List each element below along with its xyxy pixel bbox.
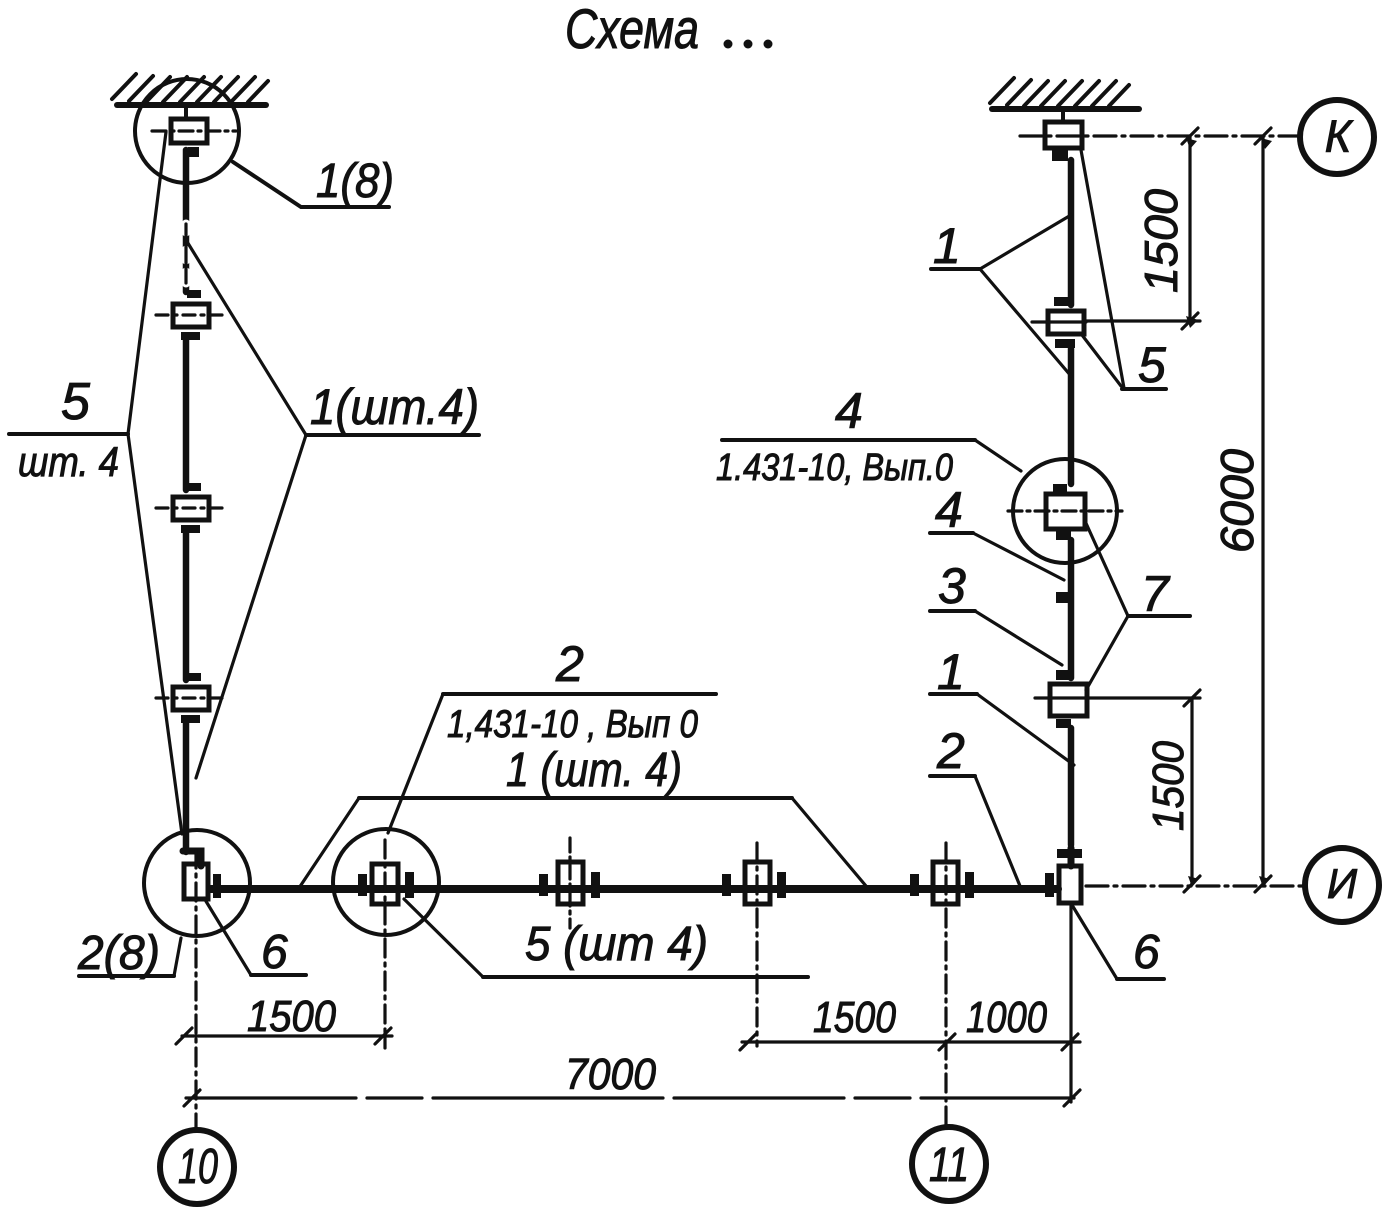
circle around clamp 1 <box>135 79 239 183</box>
clamp 4 left <box>156 673 228 723</box>
node I circle <box>1305 848 1379 922</box>
svg-text:1.431-10, Вып.0: 1.431-10, Вып.0 <box>716 447 953 489</box>
joint tick pointed by label 4 <box>1056 592 1071 603</box>
construction line clamp8 down <box>755 843 758 1046</box>
node K circle <box>1300 100 1374 174</box>
clamp 3 left <box>156 483 228 533</box>
clamp 7 bottom middle <box>539 838 600 928</box>
svg-text:К: К <box>1325 111 1354 162</box>
svg-text:1500: 1500 <box>1135 189 1187 293</box>
svg-text:Схема: Схема <box>565 0 699 60</box>
label 1(шт.4) left <box>186 240 479 778</box>
svg-text:1500: 1500 <box>1144 741 1193 831</box>
svg-text:4: 4 <box>935 482 963 538</box>
svg-text:6: 6 <box>261 926 288 979</box>
label 4 small right <box>930 482 1064 580</box>
ceiling hatch right <box>990 78 1139 109</box>
svg-text:1500: 1500 <box>247 992 336 1041</box>
construction line clamp5 to node 10 <box>194 850 197 1129</box>
svg-text:6000: 6000 <box>1211 449 1263 553</box>
ceiling hatch left <box>112 74 268 105</box>
svg-text:7000: 7000 <box>565 1050 656 1099</box>
svg-text:6: 6 <box>1133 926 1160 979</box>
joint tick pointed by label 3 <box>1056 670 1073 680</box>
label 6 right <box>1072 905 1164 979</box>
dimension 1500 top right <box>1086 128 1200 329</box>
wire bottom horizontal conductor <box>211 885 1058 893</box>
label 4 with 1.431-10 Вып.0 <box>716 383 1021 489</box>
node 11 circle <box>912 1127 986 1201</box>
svg-text:1 (шт. 4): 1 (шт. 4) <box>506 744 682 797</box>
clamp 2 left <box>156 290 228 340</box>
wire left corner jog <box>183 851 201 866</box>
clamp 11 top-right <box>1045 112 1082 161</box>
construction line corner down <box>1069 905 1072 1102</box>
label 5 шт.4 left <box>9 132 182 834</box>
label 2 right <box>930 723 1020 886</box>
circle around clamp 6 <box>333 829 439 935</box>
svg-text:5: 5 <box>61 373 91 431</box>
svg-text:1: 1 <box>937 644 965 700</box>
wire right corner jog <box>1068 848 1075 866</box>
clamp 14 right <box>1035 684 1089 728</box>
construction line clamp9 to node 11 <box>944 843 947 1126</box>
dimension 1500 bottom right <box>1089 690 1200 892</box>
circle around clamp 5 <box>144 830 250 936</box>
clamp 13 right circled <box>1008 484 1122 540</box>
junction marks on axis lines <box>1186 138 1272 887</box>
dimension 1500/1000 bottom right <box>740 1034 1080 1050</box>
node 10 circle <box>160 1130 234 1204</box>
label 1 top right <box>931 215 1071 376</box>
dash-dot axis line to I <box>1086 884 1307 887</box>
clamp 6 bottom circled <box>358 864 414 904</box>
svg-text:1(8): 1(8) <box>316 155 394 208</box>
dash-dot axis line to K <box>1020 134 1302 137</box>
circle around clamp 13 <box>1013 459 1117 563</box>
dimension 1500 bottom left <box>176 1028 392 1044</box>
svg-text:11: 11 <box>929 1139 969 1192</box>
wire left vertical conductor <box>183 150 190 852</box>
svg-text:2: 2 <box>936 723 965 779</box>
label 2(8) <box>77 927 181 980</box>
label 1 right lower <box>930 644 1074 765</box>
svg-text:5: 5 <box>1138 337 1166 393</box>
clamp 1 top-left <box>152 108 236 157</box>
svg-text:4: 4 <box>835 383 863 439</box>
svg-text:2(8): 2(8) <box>77 927 160 980</box>
svg-text:7: 7 <box>1141 566 1171 622</box>
svg-text:1: 1 <box>933 218 961 274</box>
svg-text:шт. 4: шт. 4 <box>18 438 119 485</box>
svg-text:5 (шт 4): 5 (шт 4) <box>525 918 708 971</box>
construction line clamp6 down <box>383 840 386 1048</box>
label 3 right <box>930 558 1062 665</box>
clamp 5 bottom-left corner <box>184 864 221 899</box>
svg-text:10: 10 <box>178 1140 218 1194</box>
svg-text:3: 3 <box>938 558 966 614</box>
label 6 left <box>204 898 306 979</box>
svg-text:1,431-10 , Вып 0: 1,431-10 , Вып 0 <box>447 703 698 746</box>
label 1(8) <box>233 155 394 208</box>
joint stub above right corner <box>1057 849 1082 858</box>
svg-text:И: И <box>1327 860 1358 907</box>
clamp 12 right <box>1032 297 1086 348</box>
label 5 (шт 4) <box>404 899 808 977</box>
label 2 with 1,431-10 Вып 0 <box>388 636 716 833</box>
svg-text:1(шт.4): 1(шт.4) <box>310 379 479 435</box>
label 7 right <box>1085 521 1190 690</box>
wire right vertical conductor <box>1068 160 1075 845</box>
svg-text:2: 2 <box>555 636 584 692</box>
clamp 8 bottom <box>722 862 786 904</box>
clamp 9 bottom <box>910 862 974 904</box>
clamp 10 bottom-right corner <box>1045 866 1081 903</box>
dimension 7000 <box>184 1090 1080 1106</box>
dimension 6000 right <box>1255 128 1271 892</box>
svg-text:1000: 1000 <box>966 993 1047 1042</box>
label 1 (шт.4) mid <box>299 744 866 888</box>
label 5 top right <box>1081 150 1166 393</box>
svg-text:1500: 1500 <box>813 993 896 1042</box>
